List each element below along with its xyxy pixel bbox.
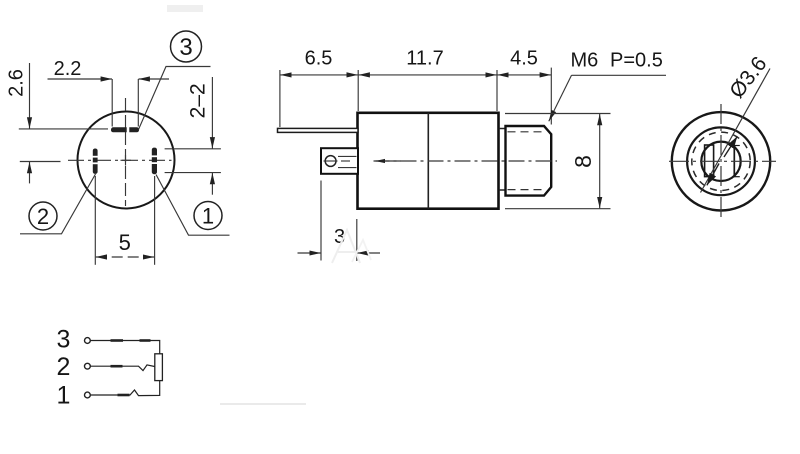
dimension 8 arrows	[599, 114, 601, 208]
dimension text 2.2	[54, 58, 82, 80]
top dimension extension lines	[280, 68, 551, 127]
watermark smudge top center	[167, 5, 203, 12]
dimension 2-2 extension lines	[165, 149, 221, 173]
end view left contact bar	[705, 145, 714, 177]
dimension 2.2 arrows	[48, 78, 170, 80]
threaded bushing M6 outline	[506, 126, 552, 196]
side view: body rectangle	[358, 113, 499, 209]
neck stubs between body and bushing	[499, 129, 506, 191]
svg-text:2: 2	[37, 204, 49, 229]
balloon 1 leader	[156, 175, 230, 236]
end view second circle	[687, 127, 755, 195]
svg-text:5: 5	[119, 230, 131, 255]
dimension text 3	[334, 226, 345, 248]
end view inner bore circle	[701, 142, 740, 181]
dimension text 6.5	[305, 48, 333, 70]
balloon 3	[171, 31, 202, 62]
dimension text 2.6	[6, 69, 28, 97]
pin 2 slot (left)	[93, 149, 98, 174]
svg-text:3: 3	[179, 34, 192, 61]
thread label M6 P=0.5	[571, 49, 663, 71]
end view vertical centerline	[720, 104, 722, 219]
schematic terminal circle 2	[85, 363, 91, 369]
end view horizontal centerline	[669, 160, 776, 162]
svg-text:2–2: 2–2	[186, 83, 209, 118]
svg-text:2.2: 2.2	[54, 58, 82, 80]
dimension 3 extension lines	[321, 181, 357, 262]
diameter 3.6 leader line	[701, 69, 771, 193]
dimension 4.5 arrows	[497, 74, 551, 76]
side view horizontal centerline	[374, 160, 558, 162]
faint watermark glyph	[332, 230, 371, 263]
dimension 5 extension lines	[95, 176, 154, 265]
tab hidden slot lines	[338, 156, 357, 167]
dimension 2-2 arrows	[211, 77, 213, 195]
thread root dashed lines	[508, 132, 542, 190]
pin 1 slot (right)	[152, 148, 158, 175]
svg-text:6.5: 6.5	[305, 48, 333, 70]
end view right contact lines	[734, 145, 740, 177]
balloon 2 leader	[20, 174, 96, 234]
dimension 5 arrows	[96, 256, 155, 258]
schematic terminal circle 3	[85, 338, 91, 344]
side view tab lug	[321, 148, 358, 174]
side view long pin	[278, 128, 359, 132]
dimension 2.6 arrows	[29, 63, 31, 183]
dimension text 2-2	[186, 83, 209, 118]
schematic wire 2 with contact bump	[91, 365, 155, 371]
schematic terminal label 2	[57, 353, 71, 381]
schematic terminal label 3	[57, 326, 71, 354]
dimension text 5	[119, 230, 131, 255]
svg-text:1: 1	[57, 382, 71, 410]
svg-text:11.7: 11.7	[406, 48, 443, 70]
svg-text:1: 1	[202, 204, 214, 229]
svg-text:3: 3	[57, 326, 71, 354]
svg-text:8: 8	[570, 155, 596, 168]
extension line: top pin level, left side	[19, 128, 108, 130]
balloon 3 leader	[139, 67, 211, 130]
front view center cross	[121, 155, 132, 166]
front view vertical centerline	[125, 98, 127, 206]
dimension text 11.7	[406, 48, 443, 70]
tab hole circle	[324, 156, 351, 167]
svg-text:4.5: 4.5	[510, 48, 538, 70]
balloon 1	[194, 202, 222, 230]
pin 3 slot (top)	[111, 127, 139, 133]
schematic terminal circle 1	[85, 392, 91, 398]
M6 leader line	[549, 75, 666, 121]
end view dashed thread circle	[692, 132, 750, 190]
dimension text 8	[570, 155, 596, 168]
schematic jack element rectangle	[155, 354, 163, 381]
schematic wire 3	[91, 341, 160, 354]
svg-text:M6P=0.5: M6P=0.5	[571, 49, 663, 71]
schematic wire thick marks	[111, 341, 151, 396]
balloon 2	[29, 202, 57, 230]
dimension 2.2 extension lines	[112, 79, 138, 127]
end view outer circle	[672, 112, 770, 210]
dimension text diameter 3.6	[725, 52, 771, 102]
extension line: center level, left side	[20, 161, 61, 163]
svg-text:2: 2	[57, 353, 71, 381]
dimension 6.5 arrows	[280, 74, 358, 76]
svg-text:2.6: 2.6	[6, 69, 28, 97]
faint scan artifact line	[220, 403, 306, 405]
dimension 11.7 arrows	[359, 74, 497, 76]
schematic terminal label 1	[57, 382, 71, 410]
side view body divider	[427, 113, 429, 209]
dimension text 4.5	[510, 48, 538, 70]
dimension 3 arrows	[298, 252, 381, 254]
schematic wire 1 with contact bump	[91, 381, 160, 396]
front view: connector shell circle	[78, 112, 175, 209]
dimension 8 extension lines	[505, 114, 611, 209]
front view horizontal centerline	[68, 159, 172, 161]
